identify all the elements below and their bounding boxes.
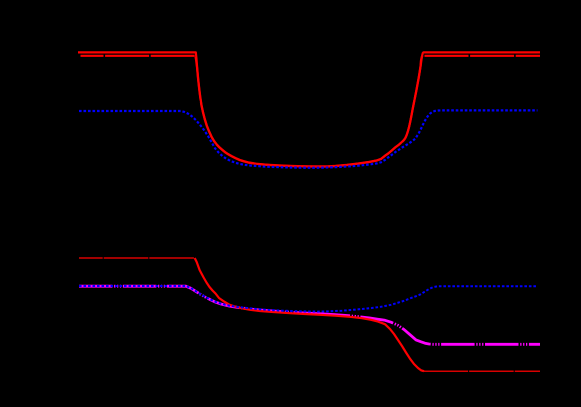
bottom panel: blue short-dashed curve [79,286,537,312]
top panel: long-dashed red light curve (right half) [318,56,540,167]
bottom panel: magenta dash-dot-dot-dot curve (left half) [79,286,320,314]
top panel: long-dashed red light curve (left half) [81,56,318,167]
bottom panel: red curve left flat (long dashes) [79,257,195,259]
top panel: solid red light curve [78,52,540,166]
bottom panel: red curve right flat (long dashes) [424,370,540,372]
bottom panel: red curve transit dip (solid bright) [195,258,424,371]
bottom panel: magenta dash-dot-dot-dot curve (right half) [320,314,540,345]
top panel: blue short-dashed light curve [79,110,538,167]
